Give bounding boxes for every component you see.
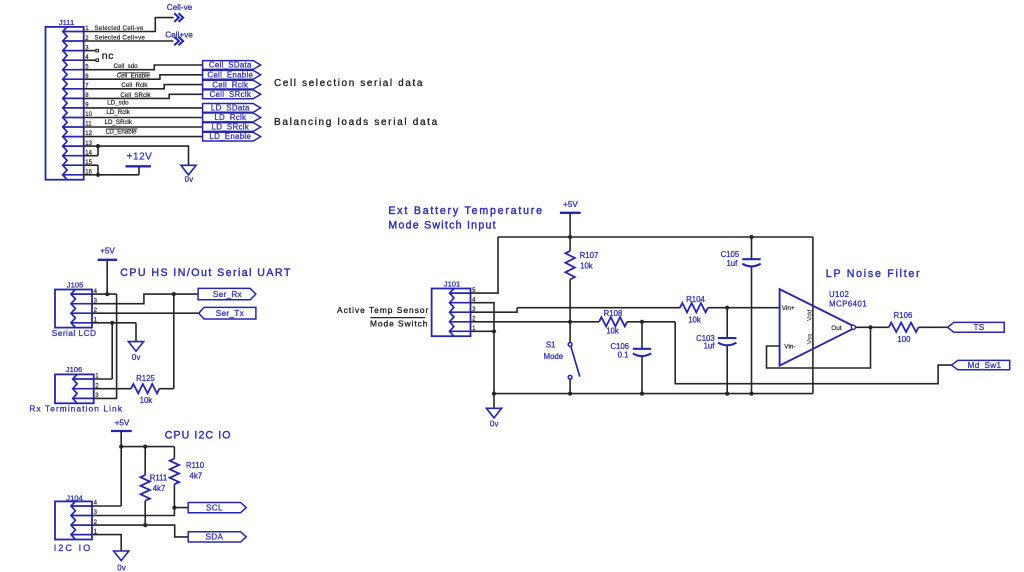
- svg-text:nc: nc: [102, 50, 114, 62]
- junction +5V branch: [119, 445, 123, 449]
- svg-text:J106: J106: [66, 365, 82, 374]
- junction pins 15/16: [96, 173, 100, 177]
- label R104 value: [686, 295, 705, 325]
- flag Cell+ve: [165, 30, 193, 45]
- svg-text:LP Noise Filter: LP Noise Filter: [826, 268, 922, 280]
- wire J111 pin11 net LD_SRclk: [84, 126, 203, 128]
- svg-text:TS: TS: [973, 323, 984, 332]
- label S1 Mode: [544, 340, 564, 361]
- wire J101 pin3 to Vin+ line: [471, 308, 780, 313]
- svg-text:Selected Cell-ve: Selected Cell-ve: [95, 25, 144, 32]
- svg-text:0v: 0v: [132, 353, 141, 362]
- net flag SCL: [188, 503, 246, 513]
- wire J111 pin9 net LD_sdo: [84, 107, 203, 109]
- svg-text:J111: J111: [59, 18, 74, 27]
- junction pin1 on ground drop: [492, 329, 496, 333]
- wire R110 leads: [173, 447, 175, 508]
- wire J111 pin2 to Cell+ve: [84, 40, 174, 42]
- svg-text:10k: 10k: [606, 327, 619, 336]
- wire J111 pin5 net Cell_sdo: [84, 65, 203, 70]
- label R110 value: [186, 461, 205, 481]
- overline Mode Switch: [370, 317, 425, 319]
- svg-text:LD_SData: LD_SData: [211, 104, 250, 113]
- svg-text:R104: R104: [686, 295, 705, 304]
- connector J111 body: [46, 27, 84, 180]
- junction C105 / ground rail: [749, 392, 753, 396]
- wire C105 leads: [751, 237, 753, 394]
- svg-text:J101: J101: [444, 280, 460, 289]
- svg-text:Cell_Rclk: Cell_Rclk: [121, 82, 148, 89]
- svg-text:U102: U102: [829, 290, 849, 299]
- junction R111 top: [143, 445, 147, 449]
- wire J105 pin1 to ground and J106 pin1: [92, 323, 136, 379]
- junction S1 / ground rail: [568, 392, 572, 396]
- svg-text:Ser_Tx: Ser_Tx: [216, 309, 244, 318]
- wire J111 pins 13+14: [84, 146, 189, 165]
- wire C103 leads: [726, 308, 728, 394]
- connector J105 body: [55, 290, 92, 328]
- connector J101 body: [432, 289, 471, 337]
- wire +5V branch to pullups: [121, 446, 174, 448]
- power +5V (UART): [98, 247, 118, 260]
- svg-text:Cell_SRclk: Cell_SRclk: [210, 90, 252, 99]
- net flag Cell_Enable: [203, 70, 261, 79]
- svg-text:R125: R125: [136, 374, 155, 383]
- svg-text:LD_Rclk: LD_Rclk: [106, 109, 130, 116]
- wire ground rail: [494, 393, 813, 395]
- wire J111 pin10 net LD_Rclk: [84, 117, 203, 119]
- wire J101 pin1: [471, 330, 495, 332]
- title Ext Battery Temperature / Mode Switch Input: [388, 205, 543, 232]
- wire J104 pin2 to SDA: [92, 525, 188, 537]
- svg-text:Cell_Rclk: Cell_Rclk: [212, 80, 248, 89]
- wire J105 pin4 to J106 pin3: [94, 294, 117, 398]
- svg-text:R111: R111: [150, 474, 167, 483]
- junction pin1/J106: [110, 321, 114, 325]
- label C103 value: [696, 334, 715, 351]
- net flag LD_SRclk: [203, 123, 261, 132]
- svg-text:Cell+ve: Cell+ve: [165, 30, 193, 39]
- svg-text:0.1: 0.1: [618, 350, 629, 359]
- switch S1: [568, 343, 580, 380]
- wire J101 pin2 to R108: [471, 321, 676, 323]
- label C105 value: [721, 250, 740, 268]
- svg-text:0v: 0v: [490, 419, 499, 428]
- label R125 value: [136, 374, 155, 405]
- connector J111 contacts: [63, 27, 67, 180]
- svg-text:LD_SRclk: LD_SRclk: [212, 123, 249, 132]
- net flag Cell_SRclk: [203, 90, 261, 99]
- svg-text:Ext Battery Temperature: Ext Battery Temperature: [388, 205, 543, 217]
- svg-text:SDA: SDA: [206, 533, 224, 542]
- svg-text:R106: R106: [894, 311, 913, 320]
- svg-text:Vin-: Vin-: [784, 344, 795, 351]
- resistor R104: [680, 303, 708, 312]
- svg-text:100: 100: [897, 335, 911, 344]
- no-connect stub pin4: [84, 59, 96, 61]
- ground 0v below J105: [128, 342, 143, 362]
- connector J105 contacts: [71, 290, 75, 328]
- wire +5V stem: [569, 213, 571, 237]
- svg-text:J105: J105: [67, 280, 83, 289]
- svg-text:Cell_Enable: Cell_Enable: [117, 73, 151, 80]
- svg-text:Cell_Enable: Cell_Enable: [207, 71, 253, 80]
- op-amp U102: [780, 289, 856, 366]
- wire J104 pin3 to SCL: [92, 508, 188, 516]
- junction ground drop / rail: [492, 392, 496, 396]
- junction C103 / ground rail: [725, 392, 729, 396]
- resistor R111: [141, 475, 150, 501]
- resistor R125: [131, 384, 159, 393]
- connector J111 pin numbers: [85, 26, 92, 175]
- power +12V: [126, 152, 153, 167]
- junction feedback / out: [868, 325, 872, 329]
- wire Vin- feedback loop: [767, 327, 871, 368]
- connector J106 body: [55, 374, 94, 403]
- ground 0v below J111: [181, 165, 196, 184]
- ground 0v below J101: [486, 394, 501, 429]
- connector J106 contacts: [73, 374, 77, 403]
- ground 0v below J104: [114, 551, 129, 572]
- net flag Cell_SData: [203, 61, 261, 70]
- svg-text:LD_Rclk: LD_Rclk: [214, 113, 246, 122]
- capacitor C103: [718, 337, 736, 339]
- svg-text:Mode Switch: Mode Switch: [370, 319, 428, 329]
- svg-text:10k: 10k: [580, 261, 593, 270]
- resistor R108: [599, 317, 627, 326]
- net flag Ser_Rx: [198, 288, 256, 299]
- net flag SDA: [188, 532, 246, 542]
- junction R110 bottom / SCL: [172, 506, 176, 510]
- wire Md_Sw1 net: [675, 322, 951, 384]
- resistor R106: [889, 323, 919, 332]
- svg-text:R110: R110: [186, 461, 205, 470]
- junction C106 / ground rail: [640, 392, 644, 396]
- svg-text:SCL: SCL: [206, 503, 223, 512]
- connector J101 contacts: [450, 289, 454, 337]
- wire J101 pin4 to ground rail: [471, 303, 495, 394]
- overline LD_Enable: [106, 128, 137, 130]
- capacitor C106: [633, 348, 651, 350]
- wire switch bottom lead: [569, 379, 571, 393]
- net flag LD_Rclk: [203, 113, 261, 122]
- svg-text:LD_sdo: LD_sdo: [107, 100, 129, 107]
- connector J105 pin numbers: [94, 289, 98, 324]
- svg-text:CPU HS IN/Out Serial UART: CPU HS IN/Out Serial UART: [120, 267, 291, 279]
- junction +5V/pin4: [105, 292, 109, 296]
- power +5V (I2C): [111, 419, 132, 431]
- svg-text:Balancing loads serial data: Balancing loads serial data: [274, 117, 439, 128]
- svg-text:Cell_sdo: Cell_sdo: [114, 63, 139, 70]
- wire J111 pin12 net LD_Enable: [84, 136, 203, 138]
- junction C103 / Vin+ line: [725, 306, 729, 310]
- connector J104 body: [55, 501, 92, 539]
- svg-text:10k: 10k: [688, 315, 701, 324]
- overline Cell_Enable: [119, 72, 151, 74]
- junction R111 bottom: [143, 523, 147, 527]
- svg-text:I2C IO: I2C IO: [54, 543, 93, 553]
- svg-text:LD_SRclk: LD_SRclk: [105, 119, 133, 126]
- wire R125 to Ser_Rx node: [173, 294, 175, 389]
- wire J111 pin6 net Cell_Enable: [84, 75, 203, 79]
- svg-text:Vss: Vss: [806, 334, 813, 345]
- wire out to R106: [856, 326, 949, 328]
- svg-text:Vin+: Vin+: [782, 305, 795, 312]
- svg-text:S1: S1: [546, 340, 556, 349]
- svg-text:CPU I2C IO: CPU I2C IO: [165, 429, 232, 441]
- junction Ser_Rx / R125: [172, 292, 176, 296]
- svg-text:+12V: +12V: [127, 152, 153, 163]
- connector J104 contacts: [71, 501, 75, 539]
- wire +5V stem to J104 pin4: [92, 431, 121, 506]
- wire J105 pin3 to Ser_Rx: [92, 294, 198, 304]
- svg-text:4k7: 4k7: [153, 484, 166, 493]
- net flag Ser_Tx: [199, 307, 256, 319]
- svg-text:Rx Termination Link: Rx Termination Link: [29, 404, 123, 414]
- junction R107 / pin2 line: [568, 320, 572, 324]
- junction rail/C105: [749, 235, 753, 239]
- connector J104 pin numbers: [94, 501, 98, 536]
- net flag LD_Enable: [203, 132, 261, 141]
- wire Vdd/Vss supply drop: [812, 237, 814, 394]
- power +5V (temp): [560, 200, 581, 213]
- junction R108 / C106 / Md_Sw1: [640, 320, 644, 324]
- svg-text:LD_Enable: LD_Enable: [209, 132, 251, 141]
- svg-text:Cell_SRclk: Cell_SRclk: [120, 92, 151, 99]
- svg-text:+5V: +5V: [115, 419, 130, 428]
- svg-text:R107: R107: [580, 251, 599, 260]
- connector J106 pin numbers: [95, 374, 99, 399]
- capacitor C105: [742, 258, 760, 260]
- svg-text:R108: R108: [604, 309, 623, 318]
- svg-text:Cell-ve: Cell-ve: [167, 3, 193, 12]
- svg-text:Cell selection serial data: Cell selection serial data: [274, 78, 424, 89]
- svg-text:10k: 10k: [140, 396, 153, 405]
- svg-text:Md_Sw1: Md_Sw1: [968, 361, 1002, 370]
- wire J111 pins 15+16 to +12V: [84, 165, 139, 175]
- op-amp output pin circle: [851, 325, 855, 329]
- label R108 value: [604, 309, 623, 336]
- svg-text:+5V: +5V: [563, 200, 578, 209]
- svg-text:Ser_Rx: Ser_Rx: [213, 290, 242, 299]
- wire J111 pin7 net Cell_Rclk: [84, 85, 203, 89]
- net flag TS: [948, 322, 1005, 332]
- wire switch top lead: [569, 322, 571, 343]
- wire R111 leads: [144, 447, 146, 525]
- wire J105 pin2 to Ser_Tx: [92, 312, 199, 314]
- wire J111 pin8 net Cell_SRclk: [84, 94, 203, 98]
- wire +5V top rail: [498, 236, 813, 238]
- svg-text:1uf: 1uf: [704, 342, 716, 351]
- label C106 value: [610, 342, 629, 359]
- label U102 MCP6401: [829, 290, 867, 308]
- svg-text:Vdd: Vdd: [806, 309, 813, 321]
- resistor R110: [170, 459, 179, 485]
- resistor R107: [565, 251, 574, 280]
- svg-text:MCP6401: MCP6401: [829, 299, 867, 308]
- svg-text:Serial LCD: Serial LCD: [52, 328, 97, 338]
- svg-text:+5V: +5V: [100, 247, 115, 256]
- svg-text:Mode: Mode: [544, 352, 564, 361]
- svg-text:0v: 0v: [185, 175, 194, 184]
- label R111 value: [150, 474, 167, 493]
- svg-text:1uf: 1uf: [726, 259, 738, 268]
- label R107 value: [580, 251, 599, 271]
- op-amp pin labels: [782, 305, 842, 350]
- wire J101 pin5 to +5V rail: [471, 237, 499, 293]
- net flag Md_Sw1: [952, 360, 1010, 369]
- svg-text:Mode Switch Input: Mode Switch Input: [388, 220, 496, 232]
- flag Cell-ve: [167, 3, 193, 22]
- net flag LD_SData: [203, 104, 261, 113]
- svg-text:Selected Cell+ve: Selected Cell+ve: [95, 35, 146, 42]
- wire J104 pin1 to ground: [92, 535, 121, 551]
- label R106 value: [894, 311, 913, 344]
- wire J106 pin2 to R125: [94, 388, 174, 390]
- wire R107 leads: [569, 237, 571, 322]
- svg-text:4k7: 4k7: [190, 471, 203, 480]
- svg-text:J104: J104: [66, 493, 82, 502]
- wire C106 leads: [641, 322, 643, 394]
- svg-text:Out: Out: [831, 325, 842, 332]
- svg-text:Active Temp Sensor: Active Temp Sensor: [337, 305, 429, 315]
- wire J111 pin1 to Cell-ve: [84, 18, 174, 32]
- svg-text:0v: 0v: [117, 563, 126, 572]
- wire +5V stem to J105 pin4: [92, 260, 117, 294]
- junction pins 13/14: [96, 144, 100, 148]
- connector J101 pin numbers: [472, 288, 476, 332]
- junction rail/R107: [568, 235, 572, 239]
- net flag Cell_Rclk: [203, 80, 261, 89]
- svg-text:Cell_SData: Cell_SData: [209, 61, 252, 70]
- no-connect stub pin3: [84, 50, 96, 52]
